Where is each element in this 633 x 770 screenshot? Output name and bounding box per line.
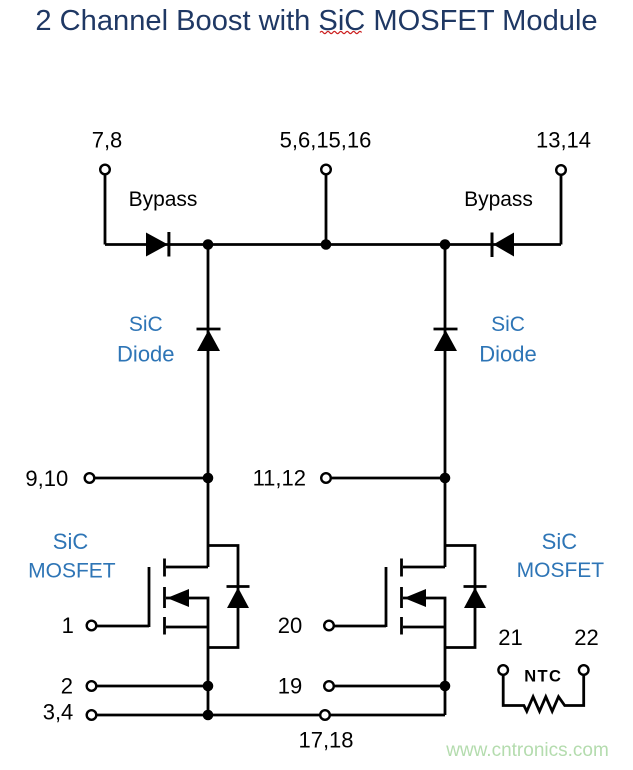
svg-text:SiC: SiC [53, 529, 89, 554]
svg-text:3,4: 3,4 [43, 700, 74, 725]
svg-text:1: 1 [62, 613, 74, 638]
svg-text:9,10: 9,10 [25, 466, 68, 491]
svg-text:Bypass: Bypass [129, 188, 198, 211]
svg-text:MOSFET: MOSFET [517, 559, 605, 582]
svg-text:2: 2 [61, 674, 73, 699]
svg-text:7,8: 7,8 [92, 128, 123, 153]
svg-text:2 Channel Boost with SiC MOSFE: 2 Channel Boost with SiC MOSFET Module [35, 5, 597, 37]
svg-text:17,18: 17,18 [298, 728, 353, 753]
svg-text:13,14: 13,14 [536, 128, 591, 153]
svg-text:22: 22 [574, 625, 598, 650]
svg-text:SiC: SiC [491, 313, 525, 336]
svg-text:5,6,15,16: 5,6,15,16 [280, 128, 372, 153]
svg-text:19: 19 [278, 674, 302, 699]
svg-text:Diode: Diode [479, 342, 536, 367]
svg-text:www.cntronics.com: www.cntronics.com [445, 740, 609, 761]
svg-text:SiC: SiC [542, 529, 578, 554]
svg-text:11,12: 11,12 [253, 466, 306, 491]
svg-text:SiC: SiC [129, 313, 163, 336]
svg-text:Diode: Diode [117, 342, 174, 367]
svg-text:20: 20 [278, 613, 302, 638]
svg-text:NTC: NTC [524, 668, 562, 686]
svg-text:21: 21 [498, 625, 522, 650]
svg-text:MOSFET: MOSFET [28, 560, 116, 583]
svg-text:Bypass: Bypass [464, 188, 533, 211]
